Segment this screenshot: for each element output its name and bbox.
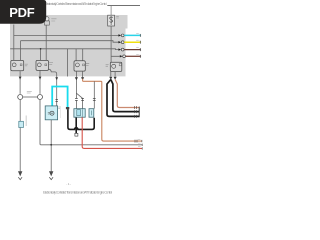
- wire shield feed from row3: [67, 49, 69, 77]
- speed sensor box: [45, 106, 60, 120]
- wire end hooks right edge: [140, 34, 141, 58]
- terminal square: [75, 133, 78, 136]
- wire to ground G1: [19, 128, 21, 173]
- shield drain cap: [66, 107, 69, 109]
- black stub from box1: [75, 117, 77, 133]
- orange wire: [83, 79, 142, 141]
- wire RB1 down to J1: [19, 71, 21, 94]
- connector bracket right bundle: [138, 107, 140, 118]
- arrow marker RB5 pin1: [109, 77, 112, 80]
- wire U1 down / row4: [111, 26, 120, 62]
- connector box2: [89, 109, 94, 118]
- inline connector marks sensor wire: [55, 100, 58, 102]
- fuse F1: [45, 17, 50, 25]
- sensor pin down to ground G2: [50, 120, 52, 173]
- wire F1 down to RB2: [45, 25, 47, 61]
- connector glyph row3: [118, 48, 124, 51]
- connector glyph row4: [120, 55, 126, 58]
- connector glyph row1: [118, 34, 124, 37]
- connector glyph row2: [118, 41, 124, 44]
- inline connector marks pin2: [81, 99, 84, 101]
- label above junctions: [27, 92, 32, 93]
- junction dot ground run: [50, 144, 52, 146]
- wire RB5 pin2 stub: [114, 72, 116, 77]
- PDF badge: [0, 0, 46, 24]
- relay box RB1: [11, 60, 28, 70]
- wire J1 down: [19, 100, 21, 122]
- relay box RB5: [106, 62, 122, 71]
- black wire RB5 pin1: [107, 80, 139, 117]
- svg-text:Electronically Controlled Tran: Electronically Controlled Transmission a…: [43, 191, 112, 195]
- junction J2: [38, 95, 43, 100]
- shielded cable cyan: [52, 87, 67, 108]
- gray system shield area: [10, 15, 128, 76]
- wire RB4 pin1 down: [75, 71, 77, 98]
- wire J1-J2: [23, 96, 38, 98]
- lower group end marks: [135, 140, 142, 150]
- dashed leader: [59, 107, 61, 119]
- inline ticks right bundle: [135, 106, 137, 118]
- noise filter U1: [108, 15, 115, 26]
- inline connector marks box2 wire: [93, 99, 96, 101]
- wire into box2: [93, 81, 95, 108]
- U1 label: [116, 16, 119, 18]
- page background: [0, 0, 149, 198]
- wire U1 top pin: [110, 6, 112, 16]
- relay box RB4: [74, 61, 89, 71]
- arrow marker RB5 pin2: [114, 77, 117, 80]
- red wire: [82, 117, 142, 148]
- wire W1 vertical: [13, 25, 15, 61]
- svg-text:- 1 -: - 1 -: [66, 182, 71, 186]
- wire row2: [21, 41, 119, 43]
- wire RB2 pin up: [40, 49, 42, 61]
- cyan inline connector: [19, 116, 26, 128]
- arrow marker J2 wire: [39, 77, 42, 80]
- yellow wire row2: [124, 41, 140, 43]
- arrow marker RB4 pin1: [75, 77, 78, 80]
- black wire middle: [111, 80, 139, 112]
- wire into box1 pin2: [76, 93, 82, 108]
- wire row2 vertical to RB1: [20, 41, 22, 61]
- wire RB4 pin1 lower segment into box1: [75, 100, 77, 108]
- junction dot row3: [40, 48, 42, 50]
- wire row3: [10, 48, 118, 51]
- salmon wire RB5 pin2: [115, 80, 139, 108]
- F1 label: [51, 19, 56, 21]
- maroon wire row3: [124, 49, 140, 51]
- wire RB5 pin1 stub: [110, 72, 112, 77]
- arrow marker sensor wire: [55, 77, 58, 80]
- wire RB4 pins up: [76, 49, 83, 61]
- maroon wire row4: [126, 55, 141, 57]
- arrow marker RB4 pin2: [81, 77, 84, 80]
- tiny labels lower group: [138, 139, 141, 146]
- arrow marker J1 wire: [19, 77, 22, 80]
- cyan wire row1: [124, 34, 140, 36]
- wire row1: [14, 34, 119, 36]
- wire W to page edge top right: [107, 5, 140, 7]
- wire RB4 pin2 stub: [82, 71, 84, 79]
- ground G1: [18, 171, 22, 176]
- wire RB2 side to sensor: [49, 69, 57, 106]
- tiny wire labels right edge: [136, 33, 139, 54]
- connector box1: [74, 109, 85, 118]
- svg-text:Electronically Controlled Tran: Electronically Controlled Transmission a…: [45, 2, 107, 6]
- junction J1: [18, 95, 23, 100]
- relay box RB2: [36, 60, 53, 70]
- shield drain black wire with hop: [68, 109, 94, 129]
- ground G2: [49, 171, 53, 176]
- wire RB2 down to J2: [39, 71, 41, 94]
- wire J2 down and right to page edge: [40, 100, 142, 145]
- inline connector marks pin1: [75, 99, 78, 101]
- svg-text:PDF: PDF: [9, 5, 34, 20]
